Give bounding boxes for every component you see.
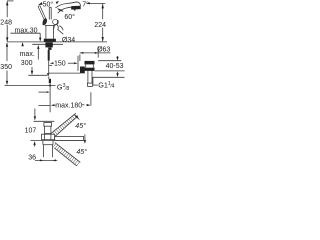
svg-text:Ø34: Ø34 — [62, 37, 75, 44]
lower wall — [55, 143, 81, 163]
svg-text:300: 300 — [21, 60, 33, 67]
under-deck block — [42, 140, 44, 144]
spout top line — [55, 2, 80, 8]
Ø63 dim — [80, 52, 111, 54]
under-deck mount — [45, 42, 52, 47]
40-53 dim arrows — [117, 56, 119, 57]
base — [44, 39, 56, 42]
60 deg wedge arrow — [57, 8, 63, 12]
150 dim — [77, 56, 79, 71]
36 dim — [42, 145, 44, 158]
deck up-arrow A — [21, 42, 23, 46]
max.30 leader — [11, 32, 41, 34]
spout bottom line — [58, 7, 72, 13]
50 deg arrowheads — [38, 2, 43, 5]
107 dim — [34, 109, 36, 117]
svg-text:50°: 50° — [43, 1, 54, 9]
pop-up lever blob — [80, 67, 85, 74]
svg-text:150: 150 — [54, 60, 66, 67]
cartridge / head — [45, 25, 55, 27]
tailpipe — [87, 71, 89, 83]
spout bar plan — [55, 136, 84, 140]
40-53 refs — [98, 60, 121, 62]
upright lever — [48, 7, 50, 19]
svg-text:224: 224 — [94, 22, 106, 29]
svg-text:350: 350 — [0, 64, 12, 71]
svg-text:248: 248 — [0, 19, 12, 26]
deck lines — [7, 41, 107, 43]
pop-up knob bump — [54, 24, 59, 29]
body column — [45, 26, 47, 39]
svg-text:max.180: max.180 — [55, 103, 82, 110]
svg-text:max.30: max.30 — [15, 27, 38, 34]
svg-text:60°: 60° — [64, 13, 75, 21]
350 dim — [6, 43, 8, 61]
drain flange — [85, 61, 95, 65]
svg-text:36: 36 — [28, 154, 36, 161]
pop-up rod — [49, 72, 80, 74]
upper wall — [51, 113, 76, 133]
svg-text:max.: max. — [20, 51, 35, 58]
max180 dim — [49, 86, 51, 112]
248 dim line — [6, 2, 8, 18]
224 dim — [102, 4, 104, 19]
tilted lever — [38, 6, 44, 19]
upper 45 arrow — [74, 114, 80, 120]
svg-text:40-53: 40-53 — [106, 63, 124, 70]
svg-text:45°: 45° — [76, 148, 87, 156]
G 1 1/4 leader — [92, 77, 94, 85]
deck line — [30, 139, 83, 141]
max300 arrows — [37, 45, 39, 49]
svg-text:Ø63: Ø63 — [97, 47, 110, 54]
bar tip ext + arrow — [84, 134, 86, 140]
hose w/ end arrow — [48, 76, 50, 79]
svg-text:45°: 45° — [75, 122, 86, 130]
faucet plan — [44, 123, 52, 127]
svg-text:107: 107 — [25, 128, 37, 135]
lever top ref line — [7, 0, 14, 2]
svg-text:7°: 7° — [82, 1, 89, 9]
aerator bar — [71, 6, 81, 10]
spout top ref + arrow — [86, 2, 105, 4]
